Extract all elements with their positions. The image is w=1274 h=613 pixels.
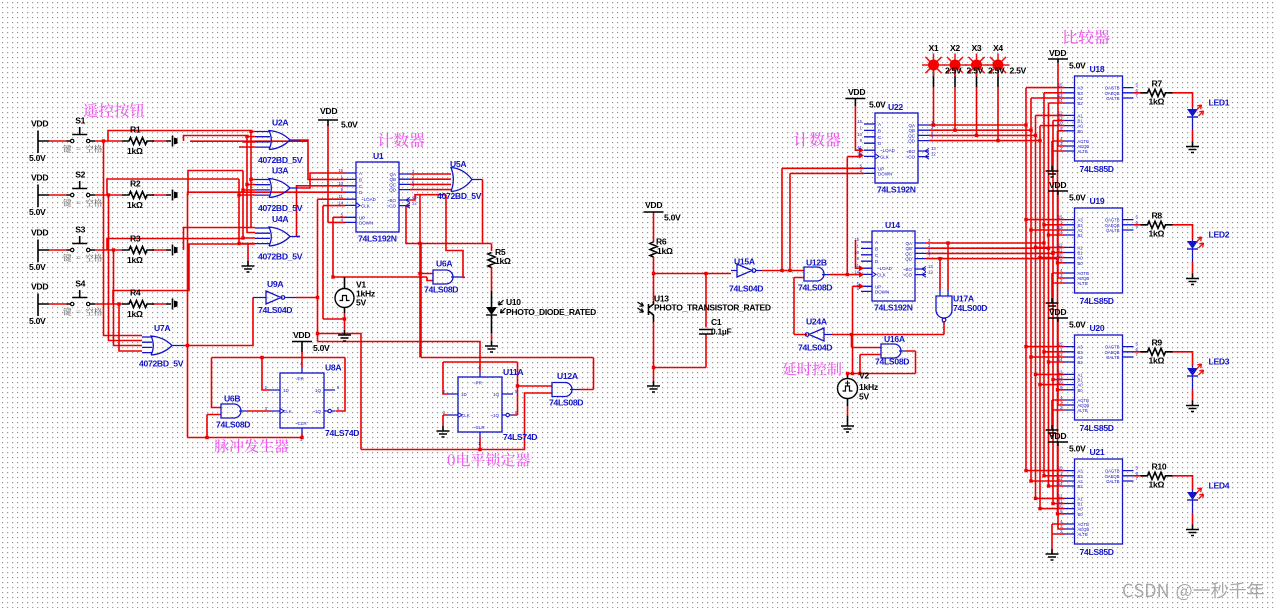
- svg-text:LED4: LED4: [1209, 481, 1230, 491]
- svg-text:14: 14: [338, 200, 343, 205]
- svg-text:~CO: ~CO: [906, 155, 916, 160]
- svg-text:74LS85D: 74LS85D: [1080, 164, 1114, 174]
- svg-text:U6B: U6B: [224, 394, 240, 404]
- svg-text:U4A: U4A: [272, 214, 288, 224]
- svg-text:1kΩ: 1kΩ: [127, 255, 143, 265]
- svg-text:5.0V: 5.0V: [1069, 193, 1086, 203]
- svg-text:R7: R7: [1152, 78, 1163, 88]
- svg-text:X3: X3: [972, 43, 982, 53]
- svg-text:U3A: U3A: [272, 166, 288, 176]
- svg-text:10: 10: [338, 181, 343, 186]
- svg-text:74LS74D: 74LS74D: [325, 428, 359, 438]
- svg-text:1kΩ: 1kΩ: [127, 309, 143, 319]
- svg-text:2.5V: 2.5V: [1010, 66, 1027, 76]
- svg-text:R2: R2: [130, 179, 141, 189]
- svg-text:S4: S4: [75, 279, 85, 289]
- svg-text:74LS85D: 74LS85D: [1080, 296, 1114, 306]
- svg-text:VDD: VDD: [1049, 307, 1066, 317]
- svg-text:1kΩ: 1kΩ: [127, 200, 143, 210]
- svg-text:12: 12: [412, 201, 417, 206]
- svg-text:U15A: U15A: [734, 257, 755, 267]
- svg-text:B: B: [875, 246, 878, 251]
- svg-text:VDD: VDD: [31, 228, 48, 238]
- svg-text:~CO: ~CO: [903, 273, 913, 278]
- svg-text:14: 14: [1058, 230, 1063, 235]
- svg-text:~1Q: ~1Q: [312, 409, 321, 414]
- svg-text:2.5V: 2.5V: [945, 66, 962, 76]
- svg-text:10: 10: [857, 132, 862, 137]
- svg-text:~LOAD: ~LOAD: [880, 148, 896, 153]
- svg-text:R8: R8: [1152, 210, 1163, 220]
- svg-text:VDD: VDD: [293, 330, 310, 340]
- svg-text:A: A: [875, 240, 878, 245]
- svg-text:74LS04D: 74LS04D: [798, 343, 832, 353]
- svg-text:4072BD_5V: 4072BD_5V: [258, 252, 303, 262]
- svg-text:R6: R6: [656, 237, 667, 247]
- svg-text:U12B: U12B: [806, 258, 827, 268]
- svg-text:1kΩ: 1kΩ: [127, 146, 143, 156]
- svg-text:74LS04D: 74LS04D: [729, 284, 763, 294]
- svg-text:VDD: VDD: [31, 282, 48, 292]
- svg-text:~1Q: ~1Q: [490, 413, 499, 418]
- svg-text:~PR: ~PR: [473, 381, 483, 386]
- svg-text:LED2: LED2: [1209, 230, 1230, 240]
- svg-text:~BO: ~BO: [387, 198, 397, 203]
- svg-text:B2: B2: [1078, 233, 1084, 238]
- svg-text:~PR: ~PR: [295, 377, 305, 382]
- svg-text:13: 13: [412, 195, 417, 200]
- svg-text:5.0V: 5.0V: [869, 100, 886, 110]
- svg-text:74LS08D: 74LS08D: [798, 283, 832, 293]
- svg-text:VDD: VDD: [31, 119, 48, 129]
- svg-text:ALTB: ALTB: [1078, 281, 1088, 286]
- svg-text:A: A: [878, 122, 881, 127]
- svg-text:DOWN: DOWN: [359, 220, 373, 225]
- svg-text:CLK: CLK: [461, 413, 470, 418]
- svg-text:5.0V: 5.0V: [664, 213, 681, 223]
- svg-text:VDD: VDD: [848, 87, 865, 97]
- svg-text:74LS04D: 74LS04D: [258, 305, 292, 315]
- svg-text:~CO: ~CO: [387, 204, 397, 209]
- svg-text:~LOAD: ~LOAD: [361, 197, 377, 202]
- svg-text:74LS192N: 74LS192N: [358, 234, 397, 244]
- svg-text:11: 11: [858, 145, 863, 150]
- svg-text:R3: R3: [130, 234, 141, 244]
- svg-text:15: 15: [857, 119, 862, 124]
- svg-text:2.5V: 2.5V: [988, 66, 1005, 76]
- svg-text:ALTB: ALTB: [1078, 532, 1088, 537]
- svg-text:5.0V: 5.0V: [1069, 444, 1086, 454]
- svg-text:1D: 1D: [283, 388, 290, 393]
- svg-text:U19: U19: [1090, 196, 1105, 206]
- svg-text:R10: R10: [1152, 461, 1167, 471]
- svg-text:4072BD_5V: 4072BD_5V: [258, 203, 303, 213]
- svg-text:OALTB: OALTB: [1106, 479, 1120, 484]
- svg-text:R9: R9: [1152, 337, 1163, 347]
- svg-text:B0: B0: [1078, 129, 1084, 134]
- svg-text:U10: U10: [506, 297, 521, 307]
- svg-text:5.0V: 5.0V: [29, 316, 46, 326]
- svg-text:74LS192N: 74LS192N: [874, 303, 913, 313]
- svg-text:X4: X4: [993, 43, 1003, 53]
- svg-text:5V: 5V: [356, 298, 366, 308]
- svg-text:1kΩ: 1kΩ: [495, 256, 511, 266]
- svg-text:B: B: [878, 128, 881, 133]
- svg-text:10: 10: [854, 250, 859, 255]
- svg-text:S2: S2: [75, 170, 85, 180]
- svg-text:U9A: U9A: [267, 279, 283, 289]
- svg-text:74LS85D: 74LS85D: [1080, 547, 1114, 557]
- svg-text:74LS08D: 74LS08D: [875, 357, 909, 367]
- svg-text:R1: R1: [130, 125, 141, 135]
- svg-text:CLK: CLK: [283, 409, 292, 414]
- svg-text:14: 14: [1058, 98, 1063, 103]
- svg-text:A: A: [359, 171, 362, 176]
- svg-text:5V: 5V: [859, 392, 869, 402]
- svg-text:U1: U1: [373, 151, 384, 161]
- svg-text:X1: X1: [929, 43, 939, 53]
- svg-text:CLK: CLK: [361, 203, 370, 208]
- svg-text:14: 14: [857, 151, 862, 156]
- svg-text:C1: C1: [711, 317, 722, 327]
- svg-text:1Q: 1Q: [315, 388, 322, 393]
- svg-text:QD: QD: [905, 257, 913, 262]
- svg-text:11: 11: [339, 194, 344, 199]
- svg-text:DOWN: DOWN: [878, 171, 892, 176]
- svg-text:R4: R4: [130, 288, 141, 298]
- svg-text:B0: B0: [1078, 388, 1084, 393]
- svg-text:1kHz: 1kHz: [859, 382, 878, 392]
- svg-text:12: 12: [931, 152, 936, 157]
- svg-text:12: 12: [928, 270, 933, 275]
- svg-text:B0: B0: [1078, 512, 1084, 517]
- svg-text:U6A: U6A: [436, 259, 452, 269]
- svg-text:V2: V2: [859, 371, 869, 381]
- svg-text:4072BD_5V: 4072BD_5V: [437, 191, 482, 201]
- svg-text:5.0V: 5.0V: [1069, 61, 1086, 71]
- svg-text:PHOTO_TRANSISTOR_RATED: PHOTO_TRANSISTOR_RATED: [654, 303, 771, 313]
- svg-text:LED3: LED3: [1209, 357, 1230, 367]
- svg-text:QD: QD: [389, 188, 397, 193]
- svg-text:1D: 1D: [461, 392, 468, 397]
- svg-text:14: 14: [1058, 481, 1063, 486]
- svg-text:DOWN: DOWN: [875, 289, 889, 294]
- svg-text:U5A: U5A: [450, 159, 466, 169]
- svg-text:1Q: 1Q: [493, 392, 500, 397]
- svg-text:VDD: VDD: [31, 173, 48, 183]
- svg-text:X2: X2: [950, 43, 960, 53]
- svg-text:0.1µF: 0.1µF: [711, 327, 732, 337]
- svg-text:74LS192N: 74LS192N: [877, 185, 916, 195]
- svg-text:14: 14: [854, 269, 859, 274]
- svg-text:VDD: VDD: [1049, 180, 1066, 190]
- svg-text:U2A: U2A: [272, 118, 288, 128]
- svg-text:74LS08D: 74LS08D: [216, 420, 250, 430]
- svg-text:U20: U20: [1090, 323, 1105, 333]
- svg-text:U12A: U12A: [557, 371, 578, 381]
- svg-text:ALTB: ALTB: [1078, 149, 1088, 154]
- svg-text:11: 11: [855, 263, 860, 268]
- svg-text:14: 14: [1058, 357, 1063, 362]
- svg-text:OALTB: OALTB: [1106, 228, 1120, 233]
- svg-text:1kΩ: 1kΩ: [1149, 355, 1165, 365]
- svg-text:CLK: CLK: [880, 154, 889, 159]
- svg-text:4072BD_5V: 4072BD_5V: [258, 155, 303, 165]
- svg-text:15: 15: [854, 237, 859, 242]
- svg-text:U16A: U16A: [884, 334, 905, 344]
- svg-text:13: 13: [931, 146, 936, 151]
- svg-text:S1: S1: [75, 116, 85, 126]
- svg-text:VDD: VDD: [645, 200, 662, 210]
- svg-text:~BO: ~BO: [906, 149, 916, 154]
- svg-text:B2: B2: [1078, 360, 1084, 365]
- svg-text:OALTB: OALTB: [1106, 355, 1120, 360]
- svg-text:~LOAD: ~LOAD: [877, 266, 893, 271]
- svg-text:S3: S3: [75, 225, 85, 235]
- svg-text:U17A: U17A: [953, 294, 974, 304]
- svg-text:B: B: [359, 177, 362, 182]
- svg-text:74LS08D: 74LS08D: [549, 398, 583, 408]
- svg-text:QD: QD: [908, 139, 916, 144]
- svg-text:U14: U14: [885, 220, 900, 230]
- svg-text:PHOTO_DIODE_RATED: PHOTO_DIODE_RATED: [506, 307, 596, 317]
- svg-text:15: 15: [338, 168, 343, 173]
- svg-text:ALTB: ALTB: [1078, 408, 1088, 413]
- svg-text:~CLR: ~CLR: [295, 421, 307, 426]
- svg-text:74LS85D: 74LS85D: [1080, 423, 1114, 433]
- svg-text:VDD: VDD: [1049, 48, 1066, 58]
- svg-text:74LS08D: 74LS08D: [424, 285, 458, 295]
- svg-text:U18: U18: [1090, 64, 1105, 74]
- svg-text:4072BD_5V: 4072BD_5V: [139, 359, 184, 369]
- svg-text:13: 13: [928, 264, 933, 269]
- svg-text:LED1: LED1: [1209, 98, 1230, 108]
- svg-text:VDD: VDD: [320, 106, 337, 116]
- svg-text:74LS74D: 74LS74D: [503, 432, 537, 442]
- svg-text:~BO: ~BO: [903, 267, 913, 272]
- svg-text:U22: U22: [888, 102, 903, 112]
- svg-text:5.0V: 5.0V: [313, 343, 330, 353]
- svg-text:74LS00D: 74LS00D: [953, 303, 987, 313]
- svg-text:5.0V: 5.0V: [341, 120, 358, 130]
- svg-text:VDD: VDD: [1049, 431, 1066, 441]
- svg-text:5.0V: 5.0V: [29, 207, 46, 217]
- svg-text:B2: B2: [1078, 484, 1084, 489]
- svg-text:2.5V: 2.5V: [967, 66, 984, 76]
- svg-text:B0: B0: [1078, 261, 1084, 266]
- svg-text:U7A: U7A: [154, 323, 170, 333]
- svg-text:5.0V: 5.0V: [29, 153, 46, 163]
- svg-text:5.0V: 5.0V: [1069, 320, 1086, 330]
- svg-text:~CLR: ~CLR: [473, 425, 485, 430]
- svg-text:5.0V: 5.0V: [29, 262, 46, 272]
- svg-text:U24A: U24A: [806, 317, 827, 327]
- svg-text:1kΩ: 1kΩ: [657, 246, 673, 256]
- svg-text:OALTB: OALTB: [1106, 96, 1120, 101]
- svg-text:U21: U21: [1090, 447, 1105, 457]
- svg-text:U11A: U11A: [503, 367, 523, 377]
- svg-text:1kΩ: 1kΩ: [1149, 96, 1165, 106]
- svg-text:1kΩ: 1kΩ: [1149, 228, 1165, 238]
- svg-text:1kΩ: 1kΩ: [1149, 479, 1165, 489]
- svg-text:B2: B2: [1078, 101, 1084, 106]
- svg-text:CLK: CLK: [877, 272, 886, 277]
- svg-text:U8A: U8A: [325, 363, 341, 373]
